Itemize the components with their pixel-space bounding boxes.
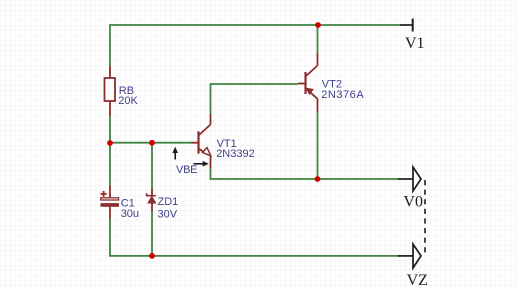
svg-text:ZD1: ZD1 [158, 196, 179, 208]
transistor VT2 (PNP 2N376A) [298, 53, 318, 112]
node A: mid rail left junction [107, 140, 113, 146]
wire: VT1 emitter down and right along V0 rail [211, 168, 399, 179]
wire: node A down to C1 top [109, 143, 111, 186]
svg-text:VBE: VBE [176, 164, 197, 176]
svg-text:30V: 30V [158, 208, 178, 220]
wire: bottom rail to VZ terminal [109, 255, 400, 257]
wire: dashed link V0 to VZ [424, 180, 426, 255]
resistor RB [105, 66, 116, 116]
svg-text:2N3392: 2N3392 [216, 148, 255, 160]
svg-text:V1: V1 [405, 35, 425, 52]
wire: mid rail from node A to VT1 base [110, 142, 191, 144]
wire: C1 bottom to bottom rail [109, 219, 111, 257]
wire: VT2 emitter down to output node [317, 112, 319, 179]
svg-text:2N376A: 2N376A [321, 89, 364, 101]
terminal VZ (arrow connector) [398, 244, 421, 268]
wire: top rail from RB column to V1 terminal [110, 25, 400, 66]
svg-text:30u: 30u [121, 208, 139, 220]
wire: VT2 collector up to top rail [317, 25, 319, 53]
annotation arrow up (VBE measurement) [172, 147, 178, 160]
svg-text:VZ: VZ [407, 272, 428, 289]
wire: ZD1 anode to bottom rail [151, 211, 153, 256]
wire: RB bottom to mid-rail node [109, 116, 111, 144]
transistor VT1 (NPN 2N3392) [191, 114, 211, 168]
plus sign of C1 [101, 191, 107, 197]
terminal V0 (arrow connector) [398, 167, 421, 191]
wire: node B down to ZD1 cathode [151, 143, 153, 189]
svg-text:V0: V0 [403, 194, 423, 211]
node: top rail junction [315, 22, 321, 28]
svg-text:20K: 20K [118, 95, 138, 107]
annotation arrow right toward emitter [194, 161, 209, 167]
zener diode ZD1 [147, 189, 156, 212]
terminal V1 [400, 19, 413, 32]
node: bottom rail ZD1 junction [149, 253, 155, 259]
node: V0 output junction [315, 176, 321, 182]
capacitor C1 [101, 186, 119, 219]
node B: mid rail ZD1 junction [149, 140, 155, 146]
wire: VT1 collector up and right to VT2 base [211, 84, 299, 114]
